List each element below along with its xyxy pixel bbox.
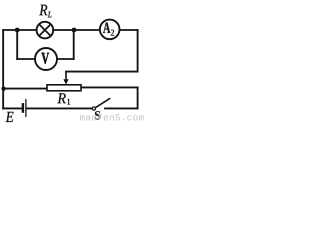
node junction dot top left — [15, 28, 20, 33]
node junction dot rheostat-left lead — [1, 87, 5, 91]
wire voltmeter branch left vertical — [16, 30, 18, 59]
battery positive plate (long thin) — [25, 99, 27, 117]
label R1 below rheostat — [57, 93, 66, 103]
ammeter A2 circle — [100, 20, 120, 40]
label S switch — [95, 111, 100, 119]
lamp RL circle with X — [37, 22, 54, 39]
wire switch contact to right corner — [105, 107, 138, 109]
label A2 inside ammeter — [103, 23, 110, 33]
rheostat R1 body — [47, 85, 81, 91]
battery negative plate (short thick) — [22, 103, 24, 113]
switch S blade — [96, 98, 110, 107]
wire right vertical upper — [137, 30, 139, 72]
wire voltmeter branch right vertical — [73, 30, 75, 59]
rheostat wiper arrowhead — [63, 79, 68, 84]
wire voltmeter branch left horizontal — [17, 58, 34, 60]
label V inside voltmeter — [41, 53, 49, 64]
wire wiper horizontal — [66, 71, 138, 73]
wire top rail — [3, 29, 137, 31]
wire left vertical — [2, 30, 4, 108]
rheostat wiper arrow shaft — [65, 72, 67, 81]
wire voltmeter branch right horizontal — [57, 58, 73, 60]
voltmeter V circle — [35, 48, 57, 70]
switch S pivot circle — [92, 107, 95, 110]
wire rheostat left lead — [3, 88, 47, 90]
node junction dot top right — [72, 28, 77, 33]
label E battery emf — [6, 112, 14, 122]
label RL — [39, 5, 47, 16]
wire rheostat right lead — [81, 86, 138, 88]
wire battery to switch — [27, 107, 92, 109]
watermark manfen5.com — [80, 114, 144, 121]
wire bottom rail left — [3, 107, 22, 109]
wire right vertical lower — [137, 87, 139, 108]
